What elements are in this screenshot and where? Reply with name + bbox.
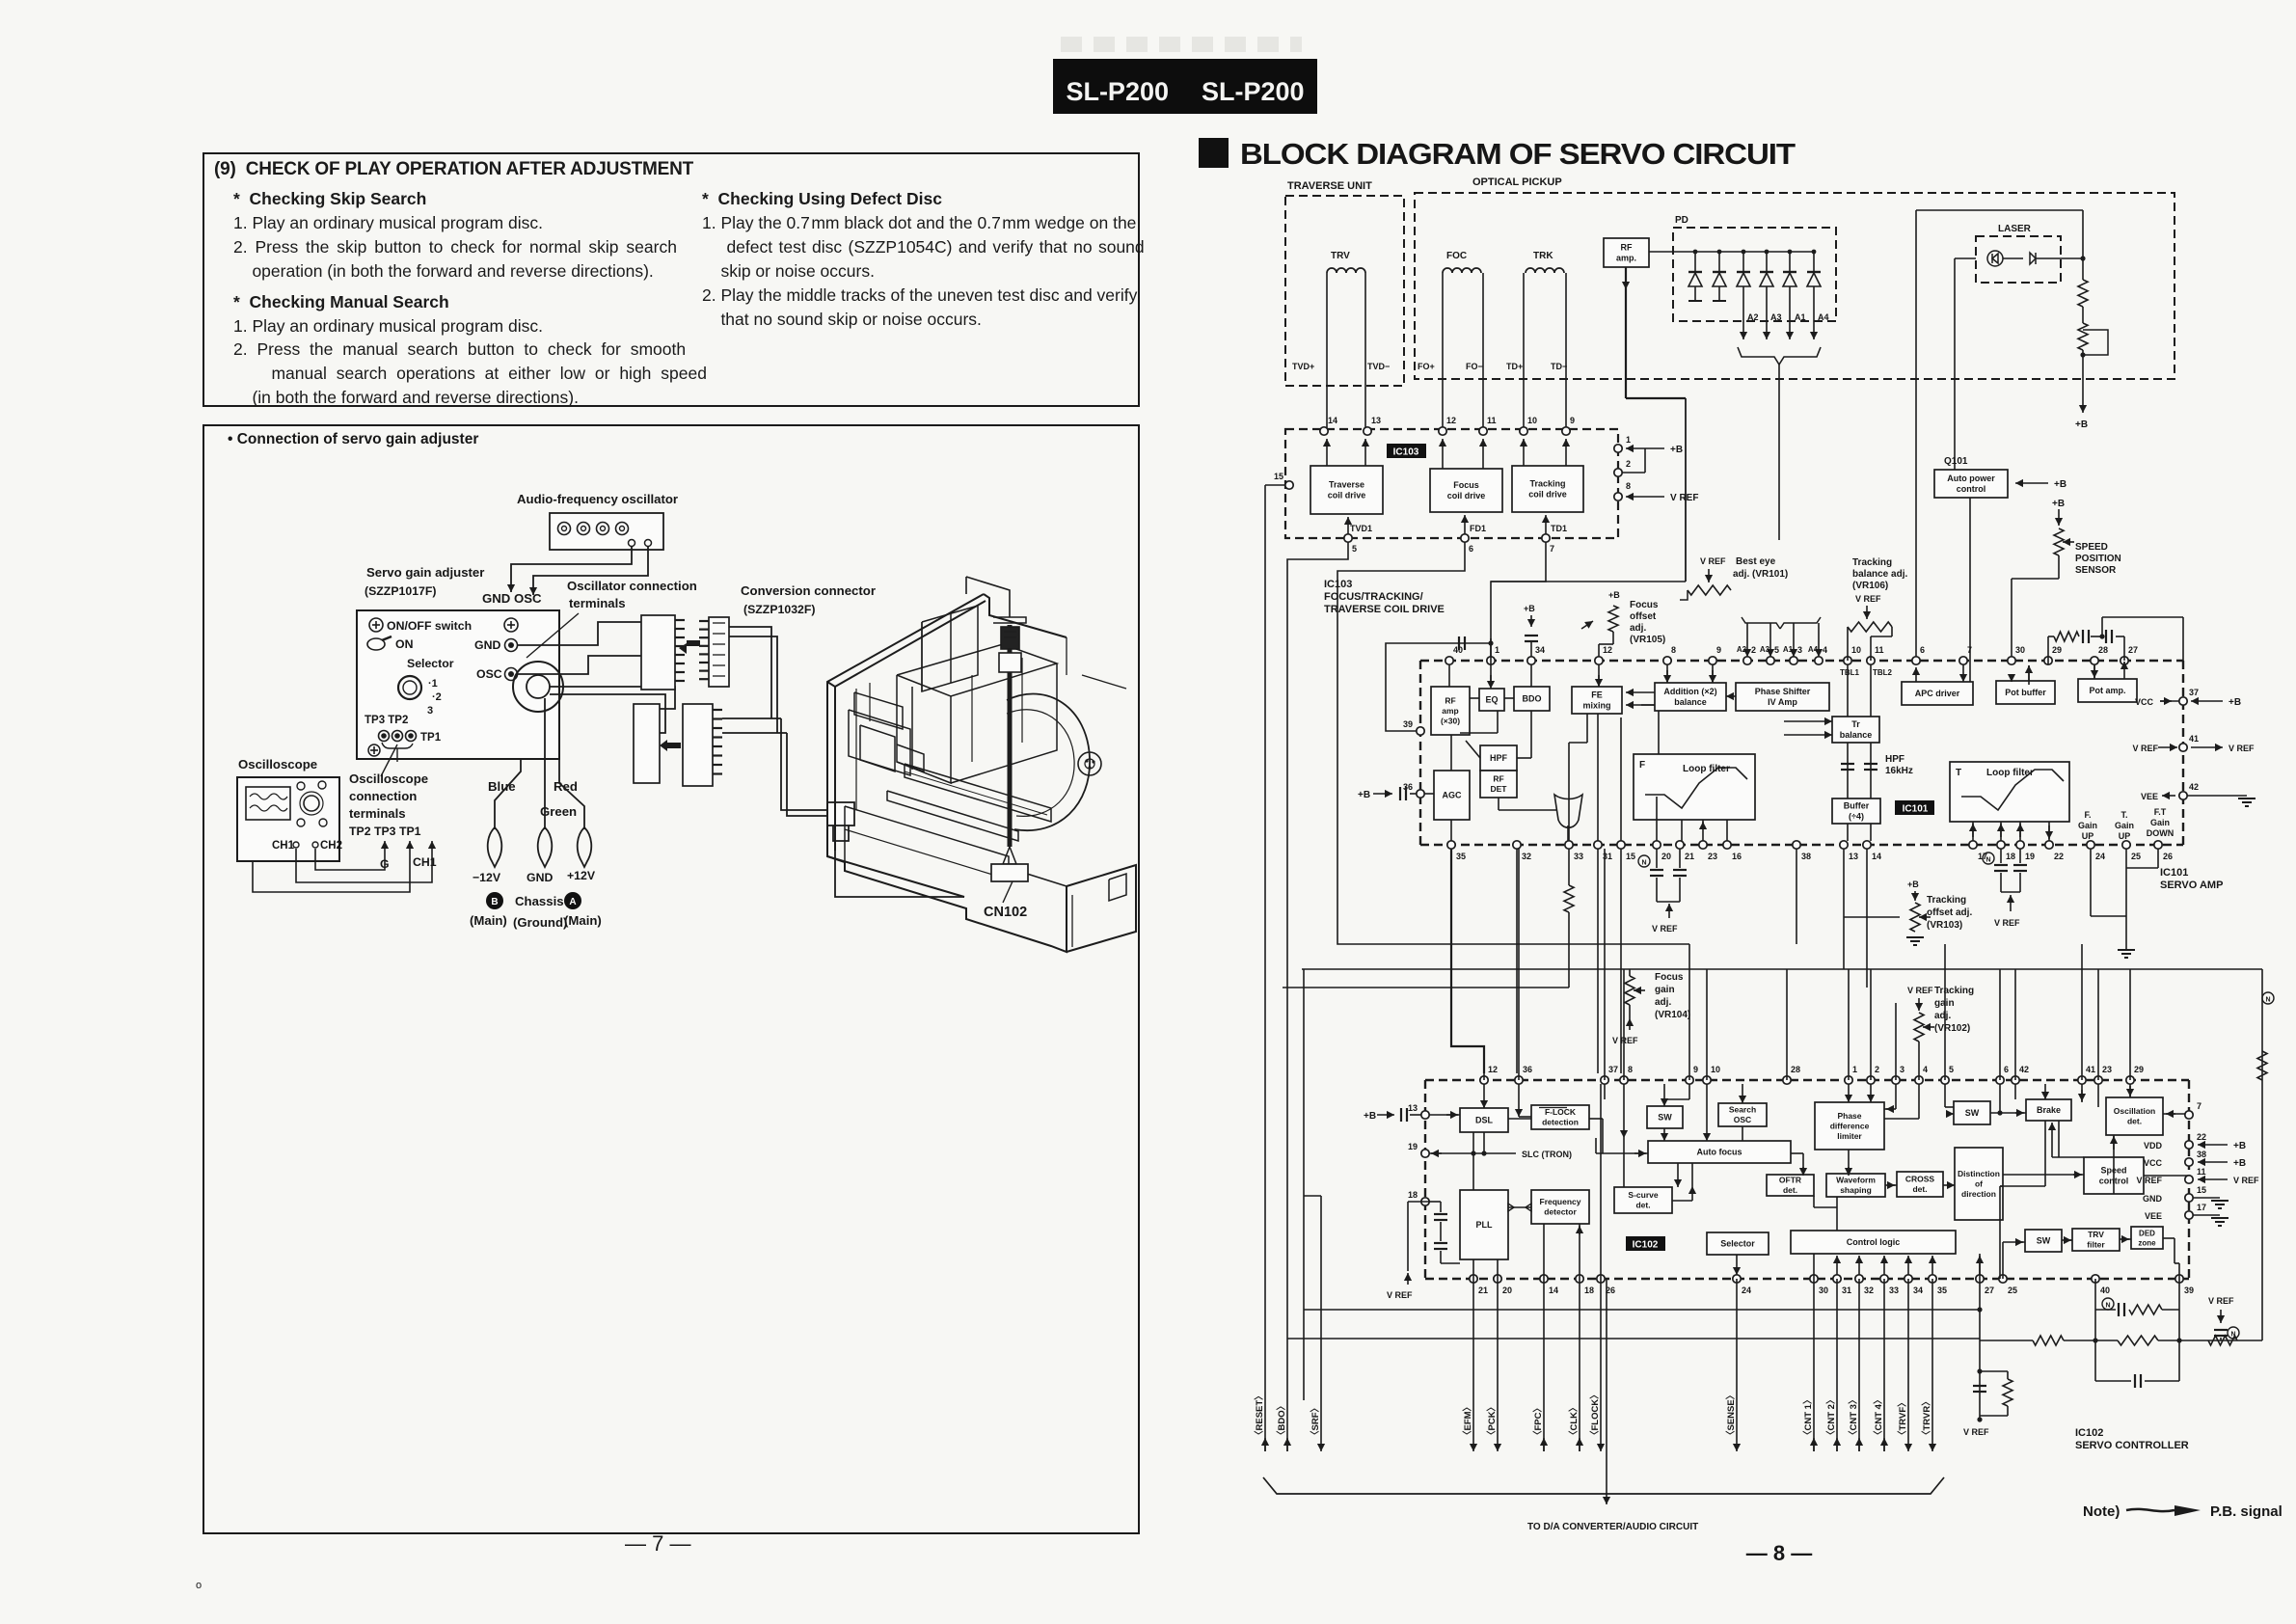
svg-text:15: 15 [1274, 472, 1283, 481]
svg-text:coil drive: coil drive [1447, 491, 1486, 501]
svg-text:21: 21 [1478, 1286, 1488, 1295]
svg-text:11: 11 [2197, 1167, 2206, 1177]
svg-text:·2: ·2 [432, 691, 442, 703]
svg-text:18: 18 [2006, 852, 2015, 861]
svg-text:33: 33 [1574, 852, 1583, 861]
svg-text:4: 4 [1923, 1065, 1928, 1074]
svg-text:Oscillation: Oscillation [2114, 1106, 2155, 1116]
svg-text:22: 22 [2054, 852, 2064, 861]
svg-text:+B: +B [1907, 880, 1919, 889]
svg-text:V REF: V REF [2132, 744, 2158, 753]
svg-text:8: 8 [1671, 645, 1676, 655]
svg-text:DOWN: DOWN [2147, 828, 2174, 838]
svg-text:limiter: limiter [1837, 1131, 1862, 1141]
svg-text:FOC: FOC [1446, 251, 1467, 261]
svg-text:13: 13 [1408, 1103, 1418, 1113]
svg-text:A4: A4 [1808, 645, 1819, 654]
svg-text:CH1: CH1 [272, 840, 295, 852]
svg-text:23: 23 [2102, 1065, 2112, 1074]
svg-text:6: 6 [2004, 1065, 2009, 1074]
svg-text:+B: +B [1608, 590, 1620, 600]
svg-text:+B: +B [1358, 790, 1370, 800]
svg-text:〈FLOCK〉: 〈FLOCK〉 [1589, 1390, 1601, 1440]
svg-text:〈FPC〉: 〈FPC〉 [1532, 1403, 1544, 1440]
svg-text:·1: ·1 [428, 678, 438, 690]
svg-text:Tracking: Tracking [1852, 557, 1892, 568]
svg-text:control: control [1957, 484, 1986, 494]
svg-text:V REF: V REF [1652, 924, 1678, 934]
svg-text:detection: detection [1542, 1118, 1579, 1127]
svg-text:(Main): (Main) [470, 913, 507, 928]
svg-text:SLC (TRON): SLC (TRON) [1522, 1150, 1572, 1159]
svg-text:38: 38 [1801, 852, 1811, 861]
svg-text:SPEED: SPEED [2075, 542, 2108, 553]
svg-text:TRV: TRV [1331, 251, 1350, 261]
svg-text:PD: PD [1675, 215, 1688, 226]
svg-text:17: 17 [2197, 1203, 2206, 1212]
svg-text:25: 25 [2008, 1286, 2017, 1295]
svg-text:14: 14 [1549, 1286, 1558, 1295]
svg-text:(÷4): (÷4) [1849, 812, 1864, 822]
svg-text:5: 5 [1352, 544, 1357, 554]
svg-text:V REF: V REF [1907, 986, 1933, 995]
svg-text:adj.: adj. [1630, 623, 1646, 634]
svg-text:33: 33 [1889, 1286, 1899, 1295]
svg-text:CH1: CH1 [413, 855, 437, 869]
svg-text:TRV: TRV [2088, 1230, 2104, 1239]
svg-text:A: A [569, 897, 576, 907]
svg-text:(VR103): (VR103) [1927, 920, 1962, 931]
svg-text:Frequency: Frequency [1540, 1197, 1581, 1206]
svg-text:7: 7 [2197, 1101, 2201, 1111]
svg-text:8: 8 [1626, 481, 1631, 491]
svg-text:Oscillator connection: Oscillator connection [567, 579, 697, 593]
svg-text:SW: SW [1965, 1108, 1980, 1118]
svg-text:12: 12 [1446, 416, 1456, 425]
svg-text:3: 3 [427, 705, 433, 717]
svg-text:Chassis: Chassis [515, 894, 564, 908]
svg-text:(VR104): (VR104) [1655, 1010, 1690, 1020]
svg-text:29: 29 [2134, 1065, 2144, 1074]
svg-text:OSC: OSC [476, 667, 502, 681]
svg-text:TBL1: TBL1 [1840, 668, 1860, 677]
svg-text:40: 40 [2100, 1286, 2110, 1295]
svg-text:〈CNT 1〉: 〈CNT 1〉 [1802, 1395, 1814, 1440]
svg-text:adj.: adj. [1934, 1011, 1951, 1021]
svg-text:10: 10 [1527, 416, 1537, 425]
svg-text:Tr: Tr [1851, 719, 1860, 729]
svg-text:27: 27 [1985, 1286, 1994, 1295]
svg-text:IC101: IC101 [1903, 804, 1929, 815]
svg-text:N: N [1641, 860, 1646, 867]
svg-text:9: 9 [1693, 1065, 1698, 1074]
svg-text:DET: DET [1491, 784, 1508, 794]
svg-text:TVD+: TVD+ [1292, 362, 1314, 371]
svg-text:42: 42 [2189, 782, 2199, 792]
svg-text:det.: det. [1783, 1185, 1797, 1195]
svg-text:+12V: +12V [567, 869, 596, 882]
svg-text:balance: balance [1674, 697, 1707, 707]
svg-text:35: 35 [1456, 852, 1466, 861]
svg-text:TO D/A CONVERTER/AUDIO CIRCU: TO D/A CONVERTER/AUDIO CIRCUIT [1527, 1522, 1698, 1532]
svg-text:TP3 TP2: TP3 TP2 [365, 715, 408, 726]
svg-text:+B: +B [2233, 1158, 2246, 1169]
svg-text:4: 4 [1823, 645, 1827, 655]
svg-text:29: 29 [2052, 645, 2062, 655]
svg-text:23: 23 [1708, 852, 1717, 861]
svg-text:TVD−: TVD− [1367, 362, 1390, 371]
svg-text:• Connection of servo gain adj: • Connection of servo gain adjuster [228, 431, 478, 447]
svg-text:LASER: LASER [1998, 224, 2032, 234]
svg-text:〈SENSE〉: 〈SENSE〉 [1725, 1391, 1737, 1440]
svg-text:Selector: Selector [1720, 1239, 1755, 1249]
svg-text:N: N [2230, 1332, 2235, 1339]
svg-text:〈CNT 3〉: 〈CNT 3〉 [1848, 1395, 1859, 1440]
svg-text:37: 37 [2189, 688, 2199, 697]
svg-text:HPF: HPF [1490, 753, 1508, 763]
svg-text:IC103: IC103 [1393, 447, 1419, 458]
svg-text:PLL: PLL [1476, 1220, 1494, 1230]
svg-text:T.: T. [2120, 810, 2127, 820]
svg-text:〈EFM〉: 〈EFM〉 [1462, 1402, 1473, 1440]
svg-text:Focus: Focus [1655, 972, 1684, 983]
svg-text:BDO: BDO [1523, 694, 1542, 704]
svg-text:18: 18 [1584, 1286, 1594, 1295]
svg-text:FO−: FO− [1466, 362, 1483, 371]
svg-text:〈TRVF〉: 〈TRVF〉 [1897, 1397, 1908, 1440]
svg-text:amp: amp [1442, 706, 1458, 716]
svg-text:connection: connection [349, 789, 417, 803]
svg-text:GND: GND [474, 638, 500, 652]
svg-text:V REF: V REF [2228, 744, 2255, 753]
svg-text:A1: A1 [1795, 312, 1806, 322]
svg-text:26: 26 [2163, 852, 2173, 861]
svg-text:balance: balance [1840, 730, 1873, 740]
svg-text:5: 5 [1949, 1065, 1954, 1074]
svg-text:balance adj.: balance adj. [1852, 569, 1907, 580]
svg-text:FD1: FD1 [1470, 524, 1486, 533]
svg-text:shaping: shaping [1840, 1185, 1872, 1195]
svg-text:OFTR: OFTR [1779, 1176, 1801, 1185]
svg-text:20: 20 [1661, 852, 1671, 861]
svg-text:30: 30 [1819, 1286, 1828, 1295]
svg-text:34: 34 [1913, 1286, 1923, 1295]
svg-text:〈RESET〉: 〈RESET〉 [1254, 1391, 1265, 1440]
svg-text:TRAVERSE COIL DRIVE: TRAVERSE COIL DRIVE [1324, 604, 1445, 615]
svg-text:of: of [1975, 1179, 1983, 1189]
svg-text:28: 28 [1791, 1065, 1800, 1074]
svg-text:8: 8 [1628, 1065, 1633, 1074]
svg-text:36: 36 [1403, 782, 1413, 792]
svg-text:CH2: CH2 [320, 840, 342, 852]
svg-text:Focus: Focus [1630, 600, 1659, 610]
svg-text:N: N [1985, 857, 1990, 864]
svg-text:F-LOCK: F-LOCK [1545, 1107, 1577, 1117]
svg-text:〈CLK〉: 〈CLK〉 [1568, 1402, 1580, 1440]
svg-text:+B: +B [1364, 1111, 1376, 1122]
svg-text:N: N [2265, 997, 2270, 1004]
svg-text:31: 31 [1842, 1286, 1851, 1295]
svg-text:7: 7 [1967, 645, 1972, 655]
svg-text:16kHz: 16kHz [1885, 766, 1913, 776]
svg-text:adj.: adj. [1655, 997, 1671, 1008]
svg-text:3: 3 [1797, 645, 1802, 655]
svg-text:terminals: terminals [349, 806, 406, 821]
svg-text:14: 14 [1872, 852, 1881, 861]
svg-text:12: 12 [1603, 645, 1612, 655]
svg-text:18: 18 [1408, 1190, 1418, 1200]
svg-text:Audio-frequency oscillator: Audio-frequency oscillator [517, 492, 678, 506]
svg-text:3: 3 [1900, 1065, 1904, 1074]
svg-text:— 8 —: — 8 — [1746, 1541, 1812, 1565]
svg-text:Oscilloscope: Oscilloscope [238, 757, 317, 771]
svg-text:〈PCK〉: 〈PCK〉 [1486, 1402, 1498, 1440]
svg-text:APC driver: APC driver [1915, 689, 1960, 698]
svg-text:2: 2 [1751, 645, 1756, 655]
svg-text:42: 42 [2019, 1065, 2029, 1074]
svg-text:VEE: VEE [2141, 792, 2158, 801]
svg-text:SW: SW [1658, 1113, 1672, 1123]
svg-text:direction: direction [1961, 1189, 1996, 1199]
svg-text:V REF: V REF [1612, 1036, 1638, 1045]
svg-text:32: 32 [1522, 852, 1531, 861]
svg-text:mixing: mixing [1582, 701, 1610, 711]
svg-text:A4: A4 [1818, 312, 1829, 322]
svg-text:S-curve: S-curve [1628, 1190, 1658, 1200]
svg-text:Auto focus: Auto focus [1697, 1148, 1742, 1157]
svg-text:adj. (VR101): adj. (VR101) [1733, 569, 1788, 580]
svg-text:detector: detector [1544, 1207, 1577, 1217]
svg-text:F: F [1639, 760, 1645, 771]
svg-text:(VR106): (VR106) [1852, 581, 1888, 591]
svg-text:Brake: Brake [2037, 1105, 2061, 1115]
svg-text:5: 5 [1774, 645, 1779, 655]
svg-text:IC102: IC102 [1633, 1240, 1659, 1251]
svg-text:zone: zone [2138, 1238, 2156, 1247]
svg-text:UP: UP [2082, 831, 2094, 841]
svg-text:V REF: V REF [2233, 1176, 2259, 1185]
svg-text:(Ground): (Ground) [513, 915, 567, 930]
svg-text:15: 15 [2197, 1185, 2206, 1195]
svg-text:offset: offset [1630, 611, 1657, 622]
svg-text:V REF: V REF [1994, 918, 2020, 928]
svg-text:(SZZP1017F): (SZZP1017F) [365, 584, 436, 598]
svg-text:41: 41 [2086, 1065, 2095, 1074]
svg-text:Conversion connector: Conversion connector [741, 583, 876, 598]
svg-text:1: 1 [1495, 645, 1499, 655]
svg-text:34: 34 [1535, 645, 1545, 655]
svg-text:VCC: VCC [2135, 697, 2154, 707]
svg-text:gain: gain [1655, 985, 1675, 995]
svg-text:VCC: VCC [2144, 1158, 2163, 1168]
svg-text:1: 1 [1852, 1065, 1857, 1074]
svg-text:filter: filter [2087, 1240, 2105, 1250]
svg-text:19: 19 [1408, 1142, 1418, 1151]
svg-text:10: 10 [1711, 1065, 1720, 1074]
svg-text:B: B [491, 897, 498, 907]
svg-text:〈TRVR〉: 〈TRVR〉 [1921, 1396, 1932, 1440]
svg-text:+B: +B [2054, 479, 2066, 490]
svg-text:GND OSC: GND OSC [482, 591, 542, 606]
svg-text:Note): Note) [2083, 1503, 2120, 1520]
svg-text:〈BDO〉: 〈BDO〉 [1276, 1401, 1287, 1440]
svg-text:(×30): (×30) [1441, 717, 1460, 726]
svg-text:AGC: AGC [1443, 791, 1463, 800]
svg-text:A1: A1 [1783, 645, 1794, 654]
svg-text:IV Amp: IV Amp [1768, 697, 1797, 707]
svg-text:7: 7 [1550, 544, 1554, 554]
svg-text:19: 19 [2025, 852, 2035, 861]
svg-text:11: 11 [1875, 645, 1884, 655]
svg-text:GND: GND [2143, 1194, 2163, 1204]
svg-text:ON/OFF switch: ON/OFF switch [387, 619, 472, 633]
svg-text:6: 6 [1469, 544, 1473, 554]
svg-text:(VR102): (VR102) [1934, 1023, 1970, 1034]
svg-text:det.: det. [2127, 1117, 2142, 1126]
svg-text:Loop filter: Loop filter [1683, 764, 1730, 774]
svg-text:RF: RF [1445, 696, 1455, 706]
svg-text:−12V: −12V [473, 871, 501, 884]
svg-text:41: 41 [2189, 734, 2199, 744]
svg-text:RF: RF [1493, 774, 1503, 784]
svg-text:12: 12 [1488, 1065, 1498, 1074]
svg-text:HPF: HPF [1885, 754, 1904, 765]
svg-text:SENSOR: SENSOR [2075, 565, 2117, 576]
svg-text:39: 39 [2184, 1286, 2194, 1295]
svg-text:A3: A3 [1760, 645, 1770, 654]
svg-text:13: 13 [1849, 852, 1858, 861]
svg-text:37: 37 [1608, 1065, 1618, 1074]
svg-text:Gain: Gain [2115, 821, 2134, 830]
svg-text:GND: GND [527, 871, 553, 884]
svg-text:+B: +B [2075, 420, 2088, 430]
svg-text:TVD1: TVD1 [1350, 524, 1372, 533]
svg-text:Addition (×2): Addition (×2) [1663, 687, 1716, 696]
svg-text:DED: DED [2139, 1229, 2155, 1237]
svg-text:V REF: V REF [1963, 1427, 1989, 1437]
svg-text:Gain: Gain [2078, 821, 2097, 830]
svg-text:Tracking: Tracking [1934, 986, 1974, 996]
svg-text:V REF: V REF [1855, 594, 1881, 604]
svg-text:Buffer: Buffer [1844, 801, 1870, 811]
svg-text:N: N [2105, 1303, 2110, 1310]
svg-text:A3: A3 [1770, 312, 1782, 322]
svg-text:TD1: TD1 [1551, 524, 1567, 533]
svg-text:F.: F. [2084, 810, 2091, 820]
svg-text:TD−: TD− [1551, 362, 1567, 371]
svg-text:2: 2 [1875, 1065, 1879, 1074]
svg-text:F.T: F.T [2154, 807, 2167, 817]
svg-text:16: 16 [1732, 852, 1742, 861]
svg-text:〈CNT 4〉: 〈CNT 4〉 [1873, 1395, 1884, 1440]
svg-text:Phase: Phase [1837, 1111, 1861, 1121]
svg-text:24: 24 [2095, 852, 2105, 861]
svg-text:〈SRF〉: 〈SRF〉 [1310, 1403, 1321, 1440]
svg-text:22: 22 [2197, 1132, 2206, 1142]
svg-text:25: 25 [2131, 852, 2141, 861]
svg-text:28: 28 [2098, 645, 2108, 655]
svg-text:det.: det. [1912, 1184, 1927, 1194]
svg-text:DSL: DSL [1475, 1116, 1494, 1125]
svg-text:ON: ON [395, 637, 414, 651]
svg-text:(VR105): (VR105) [1630, 635, 1665, 645]
svg-text:Pot buffer: Pot buffer [2005, 688, 2046, 697]
svg-text:+B: +B [2052, 499, 2065, 509]
svg-text:coil drive: coil drive [1328, 491, 1366, 501]
svg-text:38: 38 [2197, 1150, 2206, 1159]
svg-text:EQ: EQ [1485, 695, 1498, 705]
svg-text:TD+: TD+ [1506, 362, 1523, 371]
svg-text:24: 24 [1742, 1286, 1751, 1295]
svg-text:TBL2: TBL2 [1873, 668, 1893, 677]
svg-text:35: 35 [1937, 1286, 1947, 1295]
svg-text:20: 20 [1502, 1286, 1512, 1295]
svg-text:V REF: V REF [1700, 556, 1726, 566]
svg-text:UP: UP [2119, 831, 2131, 841]
svg-text:VEE: VEE [2145, 1211, 2162, 1221]
svg-text:V REF: V REF [2136, 1176, 2162, 1185]
svg-text:9: 9 [1716, 645, 1721, 655]
svg-text:terminals: terminals [569, 596, 626, 610]
svg-text:V REF: V REF [1670, 493, 1698, 503]
svg-text:〈CNT 2〉: 〈CNT 2〉 [1825, 1395, 1837, 1440]
svg-text:Servo gain adjuster: Servo gain adjuster [366, 565, 484, 580]
svg-text:Search: Search [1729, 1105, 1756, 1115]
svg-text:amp.: amp. [1616, 254, 1636, 263]
svg-text:Gain: Gain [2150, 818, 2170, 827]
svg-text:Control logic: Control logic [1847, 1237, 1901, 1247]
svg-text:+B: +B [1670, 445, 1683, 455]
svg-text:RF: RF [1621, 243, 1633, 253]
svg-text:14: 14 [1328, 416, 1337, 425]
svg-text:TRAVERSE UNIT: TRAVERSE UNIT [1287, 180, 1372, 192]
svg-text:difference: difference [1830, 1122, 1870, 1131]
svg-text:OSC: OSC [1734, 1115, 1751, 1124]
svg-text:+B: +B [1524, 604, 1535, 613]
svg-text:V REF: V REF [1387, 1290, 1413, 1300]
svg-text:offset adj.: offset adj. [1927, 907, 1972, 918]
svg-text:32: 32 [1864, 1286, 1874, 1295]
svg-text:13: 13 [1371, 416, 1381, 425]
svg-text:CN102: CN102 [984, 905, 1027, 920]
svg-text:A2: A2 [1747, 312, 1759, 322]
svg-text:2: 2 [1626, 459, 1631, 469]
svg-text:Q101: Q101 [1944, 456, 1968, 467]
svg-text:BLOCK DIAGRAM OF SERVO CIRCUIT: BLOCK DIAGRAM OF SERVO CIRCUIT [1240, 137, 1796, 171]
svg-text:Red: Red [554, 779, 578, 794]
svg-text:FE: FE [1591, 690, 1603, 700]
svg-text:det.: det. [1635, 1201, 1650, 1210]
svg-text:Waveform: Waveform [1836, 1176, 1876, 1185]
svg-text:POSITION: POSITION [2075, 554, 2121, 564]
svg-text:Tracking: Tracking [1529, 479, 1565, 489]
svg-text:TP1: TP1 [420, 732, 442, 744]
svg-text:Selector: Selector [407, 657, 454, 670]
svg-text:1: 1 [1626, 435, 1631, 445]
svg-text:Pot amp.: Pot amp. [2089, 686, 2125, 695]
svg-text:IC102: IC102 [2075, 1427, 2103, 1439]
svg-text:11: 11 [1487, 416, 1497, 425]
svg-text:Tracking: Tracking [1927, 895, 1966, 906]
svg-text:TP2 TP3 TP1: TP2 TP3 TP1 [349, 825, 421, 838]
svg-text:FOCUS/TRACKING/: FOCUS/TRACKING/ [1324, 591, 1423, 603]
svg-text:Focus: Focus [1453, 480, 1479, 490]
svg-text:FO+: FO+ [1418, 362, 1435, 371]
svg-text:+B: +B [2233, 1141, 2246, 1151]
svg-text:27: 27 [2128, 645, 2138, 655]
svg-text:CROSS: CROSS [1905, 1175, 1935, 1184]
svg-text:P.B. signal: P.B. signal [2210, 1503, 2282, 1520]
